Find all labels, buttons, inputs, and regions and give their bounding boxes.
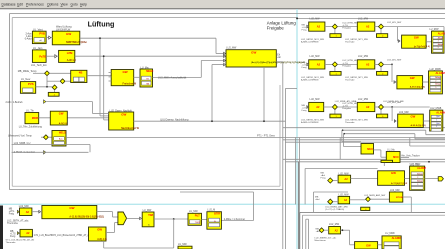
svg-text:(LU) Daemp. Nachlüftung: (LU) Daemp. Nachlüftung xyxy=(160,119,189,122)
svg-text:Quit: Quit xyxy=(436,115,440,118)
svg-text:A2: A2 xyxy=(26,210,30,214)
svg-text:LU2_MWB_ATL_MB: LU2_MWB_ATL_MB xyxy=(383,100,404,103)
svg-text:5: 5 xyxy=(435,87,436,89)
svg-text:Preferences: Preferences xyxy=(26,2,44,6)
svg-text:MELD: MELD xyxy=(146,70,153,73)
svg-text:Aus: Aus xyxy=(59,138,62,141)
svg-text:Freigabe: Freigabe xyxy=(342,27,351,30)
svg-text:(p-T)(pTol)(-1.0): (p-T)(pTol)(-1.0) xyxy=(414,46,430,48)
svg-text:1: 1 xyxy=(436,120,437,122)
svg-text:A2: A2 xyxy=(366,105,370,109)
svg-text:ALARM: ALARM xyxy=(435,71,444,75)
svg-text:LU1_Tech_Ein: LU1_Tech_Ein xyxy=(31,64,47,67)
svg-text:BTGW: BTGW xyxy=(396,197,404,199)
svg-text:LU2_MW: LU2_MW xyxy=(310,98,321,101)
svg-text:GW: GW xyxy=(414,36,419,40)
svg-text:A2: A2 xyxy=(317,62,321,66)
svg-text:Anlage: Anlage xyxy=(417,180,423,183)
svg-text:GW: GW xyxy=(69,206,74,210)
svg-text:A-99.9.(0)(-1.0): A-99.9.(0)(-1.0) xyxy=(410,86,425,89)
svg-text:Lüftung: Lüftung xyxy=(88,20,115,29)
svg-text:2-Mitte / 1-Sommer: 2-Mitte / 1-Sommer xyxy=(224,218,246,221)
svg-text:LU2_ATL_MW: LU2_ATL_MW xyxy=(387,59,402,62)
svg-text:SMRTSW-2(-1)0An: SMRTSW-2(-1)0An xyxy=(66,41,87,44)
svg-text:GW: GW xyxy=(251,50,256,54)
svg-text:GW: GW xyxy=(97,227,102,231)
svg-text:Freigabe: Freigabe xyxy=(267,25,285,30)
svg-text:A-MW+0-TBRWN: A-MW+0-TBRWN xyxy=(301,121,319,124)
svg-text:A-MW+0-TBRWN: A-MW+0-TBRWN xyxy=(301,41,319,44)
svg-text:LU_Jam: LU_Jam xyxy=(33,47,42,50)
svg-text:A-D(1.0): A-D(1.0) xyxy=(59,122,68,125)
svg-text:A-TC(A)TC(1)-R: A-TC(A)TC(1)-R xyxy=(391,182,408,185)
svg-text:TIM: TIM xyxy=(148,213,153,217)
svg-text:LU_New: LU_New xyxy=(21,78,30,81)
svg-text:A-D(-1.0): A-D(-1.0) xyxy=(97,238,107,241)
svg-text:LU2_MWB2_ABT_MW: LU2_MWB2_ABT_MW xyxy=(325,206,348,209)
svg-text:(1+CT)+(1-TBAUS): (1+CT)+(1-TBAUS) xyxy=(325,208,344,211)
svg-text:Thermobr: Thermobr xyxy=(345,79,355,82)
svg-text:GW: GW xyxy=(391,171,396,175)
svg-text:+Er: +Er xyxy=(277,56,281,59)
svg-text:LU2_MWo Ausschaltkritik: LU2_MWo Ausschaltkritik xyxy=(158,76,187,79)
svg-text:+Anl: +Anl xyxy=(321,174,326,177)
svg-text:LU2_MW: LU2_MW xyxy=(226,46,237,49)
svg-text:LPB: LPB xyxy=(67,51,73,55)
svg-text:(Messwert) Vorl. Temp: (Messwert) Vorl. Temp xyxy=(8,135,32,138)
svg-text:PVS: PVS xyxy=(28,82,34,86)
svg-text:A2: A2 xyxy=(366,25,370,29)
svg-text:MB_MiMa_Temp: MB_MiMa_Temp xyxy=(18,70,37,73)
svg-text:Freig: Freig xyxy=(302,66,308,69)
svg-text:A2: A2 xyxy=(344,177,348,181)
svg-text:PT1 - PT1 Gera: PT1 - PT1 Gera xyxy=(257,135,275,138)
svg-text:GW: GW xyxy=(411,115,416,119)
svg-text:Anlage: Anlage xyxy=(417,172,423,175)
svg-text:GW: GW xyxy=(121,113,126,117)
svg-text:MELD: MELD xyxy=(59,132,66,135)
svg-text:Freig: Freig xyxy=(9,213,15,216)
svg-text:Erl: Erl xyxy=(277,53,280,56)
svg-text:LU2_MW: LU2_MW xyxy=(329,223,340,226)
svg-text:2-Mit / 1-Betrieb: 2-Mit / 1-Betrieb xyxy=(6,101,24,104)
svg-text:Freig: Freig xyxy=(302,109,308,112)
svg-text:LU2_MW: LU2_MW xyxy=(310,55,321,58)
svg-text:LU_MW: LU_MW xyxy=(189,210,198,213)
svg-text:A2: A2 xyxy=(366,62,370,66)
svg-text:LU_Tele_Zuluftleitung: LU_Tele_Zuluftleitung xyxy=(19,125,43,128)
svg-text:A-11.0(-20)(10)-50(-1.0)(20)-5: A-11.0(-20)(10)-50(-1.0)(20)-52(1) xyxy=(69,216,104,219)
svg-text:Thermobr: Thermobr xyxy=(345,41,355,44)
svg-text:Freig: Freig xyxy=(321,177,327,180)
svg-text:Quit: Quit xyxy=(436,122,440,125)
svg-text:GW: GW xyxy=(366,243,371,247)
svg-text:A-99.9.(0)(-1.0): A-99.9.(0)(-1.0) xyxy=(411,124,426,127)
svg-text:Database: Database xyxy=(2,2,16,6)
svg-text:Anlage: Anlage xyxy=(435,83,440,86)
svg-text:View: View xyxy=(61,2,69,6)
svg-text:LU_MWh: LU_MWh xyxy=(385,233,395,235)
svg-text:GW: GW xyxy=(410,76,415,80)
svg-text:Thermobe: Thermobe xyxy=(7,222,19,225)
svg-text:Options: Options xyxy=(47,2,59,6)
svg-text:ALARM: ALARM xyxy=(417,167,426,170)
svg-text:Thermobe: Thermobe xyxy=(6,241,17,244)
svg-text:LU_MW: LU_MW xyxy=(178,243,187,246)
svg-text:A-W-1-0: A-W-1-0 xyxy=(67,59,77,62)
svg-text:BTRF: BTRF xyxy=(214,213,221,216)
svg-text:GT1_LU4_BlowerHD_AT_dht: GT1_LU4_BlowerHD_AT_dht xyxy=(6,238,35,241)
svg-text:GW: GW xyxy=(66,32,71,36)
svg-text:LU2_MWB_ABZ_MW: LU2_MWB_ABZ_MW xyxy=(364,194,386,197)
svg-text:LU2_MW: LU2_MW xyxy=(358,98,369,101)
svg-text:GW: GW xyxy=(59,112,64,116)
svg-text:MUX: MUX xyxy=(393,156,399,159)
svg-text:A2: A2 xyxy=(317,25,321,29)
svg-text:Freigabe: Freigabe xyxy=(342,107,351,110)
svg-text:ALARM: ALARM xyxy=(436,110,445,114)
svg-text:MUX: MUX xyxy=(367,148,373,151)
svg-text:0-Auto: 0-Auto xyxy=(25,38,32,41)
svg-text:Freischm W: Freischm W xyxy=(122,83,136,86)
svg-text:5: 5 xyxy=(438,47,439,49)
svg-text:A2: A2 xyxy=(316,105,320,109)
svg-text:5: 5 xyxy=(417,184,418,186)
svg-text:Anlage: Anlage xyxy=(435,76,440,79)
svg-text:PILT: PILT xyxy=(195,214,201,217)
svg-text:LU2_ATL_MW: LU2_ATL_MW xyxy=(387,21,402,24)
svg-text:2: 2 xyxy=(435,80,436,82)
svg-text:LU2_MWB_ATL_MBA: LU2_MWB_ATL_MBA xyxy=(335,100,357,103)
svg-text:LU2_MW: LU2_MW xyxy=(358,55,369,58)
svg-text:PaTB: PaTB xyxy=(39,54,46,58)
svg-text:2-Aus: 2-Aus xyxy=(25,32,32,35)
svg-text:Freig: Freig xyxy=(302,28,308,31)
svg-text:LU2_MW: LU2_MW xyxy=(399,112,409,114)
svg-text:1: 1 xyxy=(436,126,437,128)
svg-text:LU2_MWB: LU2_MWB xyxy=(430,108,442,110)
svg-text:TGRP: TGRP xyxy=(195,222,201,224)
svg-text:ALARM: ALARM xyxy=(392,237,401,240)
svg-text:LU_MW: LU_MW xyxy=(143,209,152,212)
svg-text:2: 2 xyxy=(417,177,418,179)
svg-text:LU2_M: LU2_M xyxy=(207,209,215,212)
svg-text:A-MW+0-TBRWN: A-MW+0-TBRWN xyxy=(301,79,319,82)
svg-text:A2: A2 xyxy=(26,231,30,235)
svg-text:GW: GW xyxy=(122,70,127,74)
svg-text:Abr_Univ_Tracker: Abr_Univ_Tracker xyxy=(401,154,420,157)
svg-text:SM: SM xyxy=(146,83,149,85)
svg-text:LU2_MW: LU2_MW xyxy=(358,17,369,20)
svg-text:Maschinenr: Maschinenr xyxy=(315,239,327,242)
svg-text:2: 2 xyxy=(438,41,439,43)
svg-text:ALARM: ALARM xyxy=(438,31,445,35)
svg-text:Goto: Goto xyxy=(71,2,78,6)
svg-text:off: off xyxy=(39,40,42,42)
svg-text:Freig: Freig xyxy=(10,235,16,238)
svg-text:Help: Help xyxy=(80,2,87,6)
svg-text:Thermobr: Thermobr xyxy=(345,121,355,124)
svg-text:Nachtkontrol W: Nachtkontrol W xyxy=(121,127,139,130)
svg-text:LU_Tln: LU_Tln xyxy=(26,109,34,112)
svg-text:Freigabe: Freigabe xyxy=(342,64,351,67)
svg-text:LU2_MW: LU2_MW xyxy=(310,17,321,20)
svg-text:Anlage: Anlage xyxy=(438,43,443,46)
svg-text:Edit: Edit xyxy=(17,2,23,6)
svg-text:4B: 4B xyxy=(79,71,83,75)
svg-text:Anlage: Anlage xyxy=(438,36,443,39)
svg-text:PVB: PVB xyxy=(39,32,45,36)
svg-text:GT1_LU4_BlowHDF5_LU4_BlowerkLU: GT1_LU4_BlowHDF5_LU4_BlowerkLU4_2TBD_AT_… xyxy=(34,234,91,237)
svg-text:MICB: MICB xyxy=(32,117,39,120)
svg-text:+Anl: +Anl xyxy=(315,198,320,201)
